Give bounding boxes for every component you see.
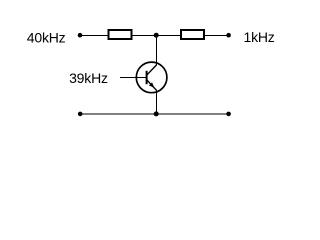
node OUT terminal dot xyxy=(226,33,231,38)
resistor R1 xyxy=(109,30,132,39)
node IN terminal dot xyxy=(78,33,83,38)
wire R1 to R2 xyxy=(133,35,182,37)
wire emitter vertical (Q1 down to bottom rail) xyxy=(156,90,158,114)
svg-text:40kHz: 40kHz xyxy=(27,29,66,45)
wire R2 to OUT xyxy=(204,35,229,37)
transistor Q1 (NPN) xyxy=(136,62,167,93)
svg-text:1kHz: 1kHz xyxy=(244,29,275,45)
node bottom-left terminal dot xyxy=(78,112,83,117)
wire collector vertical (J1 down to Q1) xyxy=(156,36,158,66)
wire bottom rail xyxy=(80,113,229,115)
node bottom-right terminal dot xyxy=(226,112,231,117)
resistor R2 xyxy=(181,30,204,39)
node junction J1 (between R1 and R2, collector tap) xyxy=(154,33,159,38)
node junction J2 (emitter to bottom rail) xyxy=(154,111,159,116)
wire IN to R1 xyxy=(80,35,109,37)
wire base (39kHz to Q1 base) xyxy=(120,77,147,79)
svg-text:39kHz: 39kHz xyxy=(69,70,108,86)
